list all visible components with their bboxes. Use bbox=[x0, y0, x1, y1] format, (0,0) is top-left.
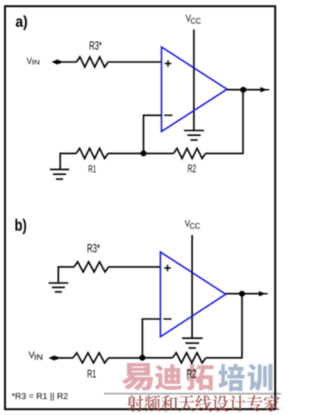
watermark underline bbox=[104, 393, 281, 395]
wire Vcc-a vertical bbox=[193, 30, 195, 131]
watermark char 射 bbox=[127, 395, 143, 411]
op-amp U2 bbox=[160, 252, 225, 337]
label Vin b bbox=[29, 352, 35, 358]
wire minus stub b bbox=[142, 319, 160, 358]
resistor R3-b bbox=[74, 262, 109, 272]
label R1 b bbox=[88, 370, 96, 378]
minus symbol U1 bbox=[164, 114, 172, 116]
watermark char 天 bbox=[178, 395, 194, 411]
ground below op-amp U1 bbox=[184, 130, 204, 132]
wire node B to R2-b bbox=[142, 357, 172, 359]
output node dot b bbox=[239, 291, 245, 297]
input arrow Vin-b bbox=[49, 355, 56, 361]
watermark char 专 bbox=[247, 395, 263, 411]
ground left a bbox=[50, 168, 69, 170]
wire Vin-a to R3-a bbox=[58, 61, 77, 63]
minus symbol U2 bbox=[163, 318, 171, 320]
wire Vcc-b vertical bbox=[191, 235, 193, 338]
note R3 equals R1 parallel R2 bbox=[12, 393, 68, 401]
label b) bbox=[15, 219, 26, 234]
output arrow a bbox=[260, 87, 267, 92]
wire R2-a to feedback corner a bbox=[206, 90, 244, 154]
resistor R2-a bbox=[174, 148, 206, 158]
resistor R2-b bbox=[173, 353, 206, 363]
plus symbol U1 bbox=[165, 60, 172, 67]
wire minus stub a bbox=[144, 115, 162, 153]
wire R3-b to opamp U2 plus input bbox=[109, 266, 161, 268]
label Vin a bbox=[27, 58, 32, 64]
wire ground-a-left to R1-a bbox=[60, 153, 76, 169]
watermark char 频 bbox=[144, 395, 160, 411]
resistor R1-b bbox=[73, 353, 109, 363]
op-amp U1 bbox=[162, 47, 228, 132]
watermark char 线 bbox=[195, 395, 211, 411]
wire opamp U1 output bbox=[227, 89, 262, 91]
input arrow Vin-a bbox=[52, 59, 59, 65]
wire R1-a to node A bbox=[108, 152, 144, 154]
ground left b bbox=[49, 282, 69, 284]
wire opamp U2 output bbox=[226, 293, 260, 295]
resistor R1-a bbox=[76, 148, 108, 158]
watermark char 设 bbox=[213, 395, 229, 411]
label R2 b bbox=[187, 369, 196, 378]
watermark char 易 bbox=[121, 363, 153, 391]
watermark char 迪 bbox=[155, 364, 182, 390]
label R3* a bbox=[90, 41, 102, 50]
label a) bbox=[16, 15, 27, 30]
wire ground-b-left to R3-b bbox=[58, 267, 74, 283]
wire R2-b to feedback corner b bbox=[206, 294, 242, 358]
wire R3-a to opamp U1 plus input bbox=[108, 61, 162, 63]
watermark char 和 bbox=[161, 395, 177, 411]
wire Vin-b to R1-b bbox=[56, 357, 74, 359]
watermark char 拓 bbox=[186, 363, 213, 390]
resistor R3-a bbox=[77, 57, 109, 67]
output arrow b bbox=[259, 291, 266, 296]
watermark char 家 bbox=[264, 395, 280, 411]
node B junction dot bbox=[139, 355, 145, 361]
label R1 a bbox=[89, 165, 96, 172]
label R3* b bbox=[88, 244, 100, 252]
label Vcc a bbox=[186, 15, 191, 22]
watermark char 训 bbox=[248, 364, 273, 392]
plus symbol U2 bbox=[164, 265, 171, 272]
label Vcc b bbox=[185, 220, 190, 226]
watermark char 计 bbox=[230, 395, 246, 411]
node A junction dot bbox=[141, 150, 147, 156]
wire R1-b to node B bbox=[109, 357, 143, 359]
output node dot a bbox=[240, 87, 246, 93]
ground below op-amp U2 bbox=[182, 337, 203, 339]
wire node A to R2-a bbox=[144, 152, 174, 154]
label R2 a bbox=[188, 164, 196, 172]
watermark char 培 bbox=[219, 364, 245, 392]
